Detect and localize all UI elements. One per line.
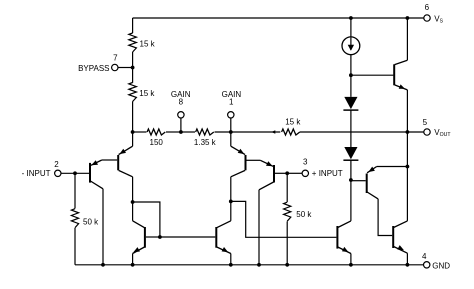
wire 15k to vout node: [300, 131, 408, 133]
svg-text:150: 150: [150, 138, 164, 147]
wire mirror base rail: [160, 236, 215, 238]
wire Q2 collector down: [132, 177, 134, 202]
svg-text:2: 2: [54, 160, 59, 169]
wire 1.35k to gain1 node: [215, 131, 231, 133]
svg-text:5: 5: [423, 118, 428, 127]
pin 3 +INPUT terminal: [302, 170, 308, 176]
pin 7 BYPASS terminal: [112, 64, 118, 70]
wire second stage elbow to Q7 base: [231, 201, 337, 237]
wire 150 to gain8 node: [166, 131, 181, 133]
svg-text:3: 3: [303, 158, 308, 167]
wire 50k right to ground: [286, 221, 288, 264]
wire Q9 collector to Q10 base: [378, 199, 392, 236]
wire node A to Q8 base: [351, 74, 394, 76]
svg-text:7: 7: [113, 54, 118, 63]
svg-text:50 k: 50 k: [83, 218, 99, 227]
node Q10 emitter ground junction: [406, 263, 410, 267]
node gain1 junction: [229, 130, 233, 134]
node Q5 emitter ground junction: [131, 263, 135, 267]
wire Q8 collector vertical: [406, 18, 408, 60]
svg-text:15 k: 15 k: [139, 89, 155, 98]
wire current source feed: [350, 18, 352, 37]
node +input 50k junction: [285, 171, 289, 175]
current source I1: [342, 37, 360, 55]
node top rail current source junction: [349, 16, 353, 20]
svg-text:GND: GND: [432, 261, 450, 270]
resistor 15k feedback: [282, 129, 300, 135]
wire vout pin stub: [407, 131, 424, 133]
wire Q2 emitter to gain row: [132, 132, 134, 146]
node vout Q9 emitter junction: [406, 165, 410, 169]
node bypass junction: [131, 66, 135, 70]
wire Q10 emitter to ground: [406, 253, 408, 265]
pin 1 GAIN terminal: [228, 112, 234, 118]
node small tick on feedback wire: [271, 130, 275, 133]
svg-text:15 k: 15 k: [140, 40, 156, 49]
node A junction: [349, 73, 353, 77]
node gain8 junction: [179, 130, 183, 134]
transistor Q2 input PNP inner left: [117, 155, 119, 170]
wire D1 to D2 crossing output row: [350, 110, 352, 147]
wire node A to diode D1: [350, 75, 352, 97]
transistor Q9 output PNP: [366, 174, 368, 194]
node -input 50k junction: [73, 171, 77, 175]
pin 6 VS terminal: [424, 15, 430, 21]
transistor Q1 input PNP outer left: [89, 163, 91, 183]
transistor Q4 input PNP inner right: [245, 155, 247, 170]
wire mirror elbow to base rail: [133, 202, 160, 237]
transistor Q8 output NPN upper: [393, 64, 395, 85]
wire pin3 stub: [287, 172, 302, 174]
wire gain8 pin stub: [180, 118, 182, 132]
wire Q1 collector to ground: [102, 189, 104, 265]
svg-text:50 k: 50 k: [296, 210, 312, 219]
wire 15k to bypass node: [132, 52, 134, 83]
node gain row left junction: [131, 130, 135, 134]
wire 15k to gain row: [132, 102, 134, 133]
wire ground rail: [75, 264, 424, 266]
wire bypass pin stub: [118, 67, 133, 69]
pin 2 -INPUT terminal: [55, 170, 61, 176]
wire Q6 collector up: [230, 201, 232, 220]
wire 50k right top stub: [286, 173, 288, 202]
svg-text:15 k: 15 k: [285, 118, 301, 127]
svg-text:1: 1: [229, 97, 234, 106]
svg-text:6: 6: [425, 3, 430, 12]
wire Q5 collector vertical: [132, 202, 134, 221]
svg-text:4: 4: [422, 252, 427, 261]
wire vout vertical mid: [406, 132, 408, 167]
node base rail junction: [158, 235, 162, 239]
wire Q4 collector down: [230, 177, 232, 202]
resistor 150: [147, 129, 165, 135]
wire node B to Q7 collector: [350, 180, 352, 221]
wire D2 to node B: [350, 161, 352, 181]
node B junction Q9 base: [349, 178, 353, 182]
diode D2: [344, 147, 357, 159]
svg-text:BYPASS: BYPASS: [78, 64, 109, 73]
wire top supply rail: [133, 17, 424, 19]
resistor 15k lower: [129, 83, 137, 102]
node vout junction: [406, 130, 410, 134]
resistor 15k upper: [129, 33, 137, 52]
svg-text:1.35 k: 1.35 k: [194, 138, 217, 147]
pin 5 VOUT terminal: [424, 129, 430, 135]
wire 50k top stub: [74, 173, 76, 208]
node Q6 emitter ground junction: [229, 263, 233, 267]
node 50k right ground junction: [285, 263, 289, 267]
wire Q5 emitter to ground: [132, 254, 134, 265]
node Q4 collector junction: [229, 200, 233, 204]
wire Q9 emitter horizontal: [377, 166, 408, 168]
pin 4 GND terminal: [424, 262, 430, 268]
transistor Q6 mirror NPN right: [215, 227, 217, 248]
wire current source to node A: [350, 55, 352, 75]
wire gain row to 150: [133, 131, 147, 133]
transistor Q5 mirror NPN left: [144, 227, 146, 248]
wire Q3 collector to ground: [258, 190, 260, 265]
resistor 50k left: [71, 209, 78, 228]
wire gain1 pin stub: [230, 118, 232, 132]
wire Q8 emitter to vout: [406, 90, 408, 132]
wire Q7 emitter to ground: [350, 254, 352, 265]
transistor Q10 output NPN lower: [392, 226, 394, 248]
wire vout vertical lower: [406, 167, 408, 221]
wire left chain vertical top: [132, 18, 134, 33]
node Q1 collector ground junction: [101, 263, 105, 267]
svg-text:8: 8: [179, 97, 184, 106]
wire Q6 emitter to ground: [230, 254, 232, 265]
transistor Q3 input PNP outer right: [273, 165, 275, 183]
svg-text:- INPUT: - INPUT: [22, 169, 51, 178]
node Q7 emitter ground junction: [349, 263, 353, 267]
resistor 50k right: [284, 202, 291, 221]
transistor Q7 second stage NPN: [336, 226, 338, 249]
wire 50k to ground rail: [74, 228, 76, 265]
node top rail Q8 collector junction: [406, 16, 410, 20]
svg-text:+ INPUT: + INPUT: [312, 169, 343, 178]
diode D1: [344, 97, 357, 109]
wire Q4 emitter to gain row: [230, 132, 232, 146]
wire gain8 node to 1.35k: [181, 131, 195, 133]
node Q3 collector ground junction: [257, 263, 261, 267]
pin 8 GAIN terminal: [178, 112, 184, 118]
resistor 1.35k: [196, 129, 214, 135]
node current mirror left junction: [131, 200, 135, 204]
wire gain1 node to 15k feedback: [231, 131, 280, 133]
wire pin2 to Q1 base: [61, 172, 89, 174]
